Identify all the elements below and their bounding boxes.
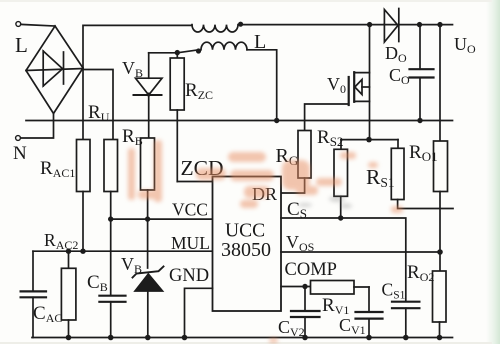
pin DR label (252, 184, 277, 204)
op-amp IC U1 UCC38050 (213, 177, 282, 312)
wire RO1 bottom to VOS node (439, 192, 441, 272)
label CAC (33, 303, 62, 325)
wire DR pin to RG bottom (281, 178, 305, 193)
wire RAC1 bottom to MUL line (82, 192, 84, 252)
wire L input to bridge top (21, 24, 55, 26)
node CB bus (108, 335, 114, 341)
pin GND label (169, 266, 209, 286)
inductor ZCD winding (201, 42, 247, 50)
zener VB VCC clamp (133, 219, 164, 337)
label RG (276, 145, 299, 168)
wire bridge N arm to terminal N (21, 114, 54, 139)
label RB (122, 126, 143, 148)
wire CS line (281, 218, 406, 302)
label RAC2 (44, 230, 78, 252)
node GND bus (182, 335, 188, 341)
pin COMP label (285, 260, 337, 280)
label RZC (185, 80, 213, 102)
node output divider junction (437, 22, 442, 27)
node drain junction on top rail (367, 22, 372, 27)
resistor RAC1 (77, 140, 91, 192)
resistor RO1 (434, 141, 448, 192)
label RS2 (317, 127, 343, 149)
label RV1 (322, 295, 349, 317)
capacitor CS1 (392, 302, 419, 338)
wire bridge + to RU top (83, 70, 113, 140)
svg-text:38050: 38050 (221, 239, 271, 261)
node RS2 to CS line (338, 215, 343, 220)
watermark (128, 140, 403, 343)
node RB VCC (145, 216, 150, 221)
svg-text:N: N (13, 143, 27, 164)
resistor RAC2 (61, 251, 76, 337)
pin ZCD label (181, 156, 224, 180)
output capacitor Co (410, 25, 434, 121)
label VB upper (122, 58, 143, 80)
label RU (88, 102, 110, 124)
resistor RZC (170, 53, 184, 182)
node CAC bus (66, 335, 72, 341)
resistor RU (104, 140, 118, 192)
resistor RG (298, 131, 311, 179)
node VOS divider (437, 249, 443, 255)
node CV1 bus (366, 335, 372, 341)
wire VOS line (281, 251, 440, 253)
label L input (15, 33, 28, 57)
node RAC2 top (66, 249, 71, 254)
node RZC top (175, 50, 180, 55)
label Do (385, 43, 407, 65)
polarity dot of main winding (238, 22, 243, 27)
wire COMP line (281, 286, 311, 288)
node CV2 bus (302, 335, 308, 341)
label RO1 (409, 142, 438, 164)
svg-text:L: L (15, 33, 28, 57)
node COMP CV2 (302, 284, 307, 289)
label UCC38050 (221, 221, 271, 262)
bridge rectifier (26, 26, 83, 114)
svg-text:COMP: COMP (285, 260, 337, 280)
terminal L (16, 22, 21, 27)
svg-text:VCC: VCC (172, 200, 208, 220)
wire bridge + riser and top rail to inductor (83, 25, 192, 68)
node RAC1 to MUL (80, 249, 85, 254)
capacitor CAC (21, 251, 46, 337)
pin VCC label (172, 200, 208, 220)
MOSFET V0 (349, 25, 370, 140)
wire top rail inductor to diode (243, 24, 384, 26)
node MOSFET source (366, 137, 372, 143)
label RO2 (407, 262, 434, 284)
capacitor CB (99, 219, 125, 337)
resistor RO2 (433, 271, 447, 338)
capacitor CV2 (291, 287, 320, 338)
label RAC1 (40, 158, 75, 180)
bottom ground bus (32, 337, 453, 339)
wire bridge + down to RAC1 (82, 68, 84, 140)
wire GND pin to bottom bus (185, 288, 213, 337)
wire VCC line (111, 218, 213, 220)
resistor RB (141, 138, 155, 219)
svg-text:MUL: MUL (171, 233, 210, 253)
terminal N (16, 136, 21, 141)
pin VOS label (286, 232, 314, 254)
node ZCD winding to bus (274, 118, 279, 123)
resistor RS2 (334, 140, 348, 218)
label CV1 (339, 315, 366, 337)
svg-text:GND: GND (169, 266, 209, 286)
capacitor CV1 (356, 287, 383, 338)
wire MUL line (33, 250, 213, 252)
resistor RV1 (311, 281, 370, 295)
pin CS label (287, 199, 307, 221)
label CB (87, 272, 108, 294)
pin MUL label (171, 233, 210, 253)
scan smudges (298, 196, 352, 209)
label L inductor (254, 31, 266, 53)
label VB lower (121, 254, 142, 276)
label RS1 (366, 165, 395, 190)
node CS1 bus (403, 335, 409, 341)
node Co junction (417, 22, 422, 27)
resistor RS1 (391, 140, 453, 209)
node RU VCC (108, 216, 113, 221)
ground return bus (26, 120, 453, 122)
wire ZCD winding left branch (149, 50, 196, 53)
label N (13, 143, 27, 164)
label Co (389, 65, 410, 87)
wire source node to sense resistors (341, 139, 398, 141)
wire top rail diode to output (384, 24, 453, 26)
node Co to bus (417, 118, 422, 123)
label CV2 (278, 317, 305, 339)
wire gate to RG (305, 104, 349, 131)
zener VB ZCD clamp (134, 53, 163, 138)
node RO2 bus (437, 335, 443, 341)
green page edge strip (486, 0, 500, 344)
inductor L main winding (192, 25, 238, 32)
wire RU bottom to VCC line (110, 192, 112, 220)
polarity dot of ZCD winding (196, 48, 201, 53)
boost diode Do (384, 9, 398, 43)
wire output divider column (439, 25, 441, 141)
wire ZCD winding right to ground bus (247, 50, 277, 121)
node zener bus (145, 335, 151, 341)
label V0 (327, 74, 346, 96)
label Uo (454, 34, 476, 56)
wire ZCD pin lead (177, 181, 212, 183)
label CS1 (382, 280, 406, 302)
